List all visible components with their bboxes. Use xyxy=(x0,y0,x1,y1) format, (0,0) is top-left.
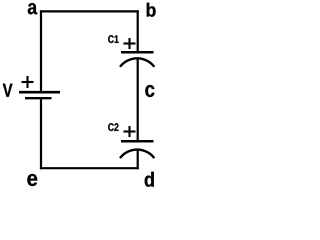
wire right lower (C2 to node d) xyxy=(137,150,139,169)
node a xyxy=(28,3,37,14)
C2 polarity + xyxy=(124,126,136,137)
wire right upper (node b to C1) xyxy=(137,10,139,51)
wire top a-b xyxy=(40,10,139,12)
label V xyxy=(3,84,13,97)
node e xyxy=(27,174,37,186)
wire bottom e-d xyxy=(40,167,139,169)
node c xyxy=(145,85,154,97)
wire left lower (battery - to node e) xyxy=(40,99,42,169)
node b xyxy=(147,3,156,17)
capacitor C2 xyxy=(120,141,154,158)
battery V xyxy=(19,92,60,98)
label C1 xyxy=(108,35,118,43)
wire left upper (node a to battery +) xyxy=(40,10,42,91)
capacitor C1 xyxy=(120,52,154,67)
C1 polarity + xyxy=(124,38,136,49)
battery polarity + xyxy=(22,76,34,88)
wire right middle (C1 to C2 through node c) xyxy=(137,59,139,141)
node d xyxy=(145,172,154,187)
label C2 xyxy=(108,123,118,131)
